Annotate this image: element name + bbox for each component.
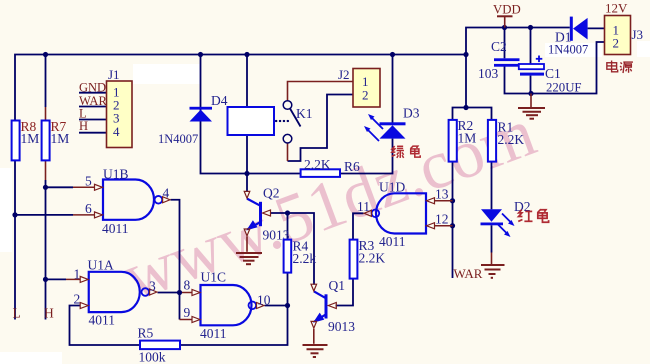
svg-text:D3: D3	[403, 106, 420, 121]
capacitor C1	[519, 56, 582, 95]
relay coil K1 box	[228, 107, 275, 135]
svg-text:9013: 9013	[328, 319, 355, 334]
wire R6 to D3	[340, 139, 393, 174]
connector J3	[605, 1, 644, 55]
svg-text:U1A: U1A	[88, 258, 114, 273]
pin 1	[46, 267, 89, 283]
pin 5	[46, 174, 103, 191]
svg-text:4011: 4011	[89, 313, 116, 328]
pin 9	[184, 305, 201, 323]
LED D3 green	[364, 106, 420, 142]
svg-text:9: 9	[184, 305, 191, 320]
ground below Q2	[236, 237, 262, 265]
svg-text:Q1: Q1	[329, 278, 346, 293]
svg-text:VDD: VDD	[493, 3, 521, 17]
svg-text:C1: C1	[545, 66, 561, 81]
wire U1C pin8 stub feed	[180, 292, 192, 294]
wire H net maroon section	[45, 107, 47, 180]
svg-text:2.2K: 2.2K	[359, 251, 386, 266]
pin 6	[15, 201, 103, 218]
wire R4 bottom to feedback	[180, 273, 288, 345]
ground below D2	[481, 253, 505, 278]
svg-text:L: L	[13, 306, 21, 321]
wire H net vertical	[45, 55, 47, 108]
wire K1 lower stem (maroon)	[287, 143, 289, 161]
svg-text:J2: J2	[338, 67, 350, 82]
wire C2 stem	[504, 28, 506, 59]
resistor R3	[350, 238, 386, 279]
wire D1 to J3 pin1	[588, 27, 605, 29]
resistor R6	[301, 157, 360, 177]
svg-text:J1: J1	[108, 67, 120, 82]
Q1 collector pin arrow	[311, 284, 317, 291]
svg-text:1M: 1M	[21, 131, 40, 146]
pin 13	[427, 187, 453, 204]
pin 4 output	[163, 186, 171, 203]
wire C1 bottom	[530, 76, 532, 94]
ground below Q1	[303, 329, 328, 357]
svg-text:D4: D4	[211, 93, 228, 108]
wire R2 R1 top feed	[453, 108, 492, 121]
svg-text:2: 2	[362, 88, 369, 103]
svg-text:1M: 1M	[51, 131, 70, 146]
wire U1A output	[158, 292, 180, 294]
wire J1 pin4 H	[79, 132, 107, 134]
connector J2	[338, 67, 380, 107]
resistor R8	[12, 119, 40, 160]
diode D4	[158, 93, 228, 146]
svg-text:C2: C2	[491, 39, 507, 54]
svg-text:12: 12	[435, 212, 449, 227]
wire VDD top rail	[15, 55, 466, 320]
svg-text:4: 4	[113, 124, 120, 139]
svg-text:220UF: 220UF	[546, 81, 582, 95]
svg-text:2.2K: 2.2K	[304, 157, 331, 172]
wire relay coil top	[246, 55, 248, 108]
svg-text:5: 5	[85, 174, 92, 189]
Q2 emitter pin arrow	[244, 229, 250, 236]
svg-text:U1B: U1B	[103, 167, 129, 182]
switch K1	[276, 101, 301, 143]
svg-text:2: 2	[613, 36, 620, 51]
ground below C1	[518, 94, 545, 119]
svg-text:1N4007: 1N4007	[548, 43, 588, 57]
wire J1 pin1 GND	[79, 92, 107, 94]
wire R4 top stub	[287, 213, 289, 240]
resistor R7	[42, 119, 70, 160]
wire D2 cathode down	[491, 225, 493, 252]
op-amp U1B nand gate	[103, 180, 162, 220]
svg-text:1N4007: 1N4007	[158, 132, 198, 146]
svg-text:10: 10	[257, 293, 271, 308]
wire R3 bottom to Q1 base	[336, 279, 354, 306]
wire J1 pin2 WAR	[79, 106, 107, 108]
wire U1B output to U1C inputs	[171, 200, 180, 320]
wire VDD corner to D1	[466, 28, 570, 55]
connector J1	[107, 67, 133, 148]
pin 10 output	[257, 293, 271, 309]
svg-text:8: 8	[184, 278, 191, 293]
wire J2 pin1 to K1 top (maroon)	[288, 82, 354, 101]
power label chinese for J3	[607, 61, 618, 72]
resistor R1	[488, 120, 524, 162]
Q1 emitter pin arrow	[311, 321, 317, 328]
Q2 collector pin arrow	[244, 191, 250, 198]
op-amp U1D nand gate mirrored	[372, 193, 426, 233]
wire J2 pin2 to K1 bottom	[288, 95, 354, 162]
op-amp U1A nand gate	[89, 272, 149, 312]
value label green chinese for D3	[392, 146, 404, 158]
wire U1D output to R3	[353, 213, 364, 239]
pin 3 output	[149, 279, 157, 296]
resistor R2	[449, 118, 477, 162]
resistor R5	[138, 326, 181, 364]
wire R2 bottom to WAR	[452, 162, 454, 278]
wire C2 bottom to gnd row	[505, 42, 605, 94]
svg-text:4011: 4011	[200, 326, 227, 341]
svg-text:4011: 4011	[102, 221, 129, 236]
svg-text:13: 13	[435, 187, 449, 202]
svg-text:H: H	[79, 119, 88, 133]
resistor R4	[284, 239, 317, 273]
svg-text:3: 3	[149, 279, 156, 294]
diode D1	[548, 17, 588, 57]
svg-text:U1C: U1C	[201, 270, 227, 285]
LED D2 red	[481, 199, 531, 237]
Q2 base pin arrow	[263, 210, 271, 216]
wire VDD to R divider	[465, 55, 467, 108]
wire D4 branch	[201, 55, 301, 174]
transistor Q1	[313, 291, 326, 323]
power VDD symbol	[497, 16, 513, 27]
svg-text:4: 4	[163, 186, 170, 201]
svg-text:100k: 100k	[139, 350, 166, 364]
svg-text:2: 2	[74, 292, 81, 307]
svg-text:U1D: U1D	[379, 180, 405, 195]
op-amp U1C nand gate	[201, 285, 257, 325]
pin 11 output	[357, 199, 371, 216]
wire R1 bottom to D2	[491, 162, 493, 210]
svg-text:WAR: WAR	[454, 266, 483, 281]
svg-text:2.2k: 2.2k	[293, 251, 317, 266]
svg-text:R6: R6	[344, 159, 360, 174]
svg-text:4011: 4011	[379, 234, 406, 249]
transistor Q2	[246, 199, 260, 231]
wire U1C output to R4 node	[265, 305, 288, 307]
svg-text:103: 103	[478, 66, 499, 81]
svg-text:Q2: Q2	[263, 186, 280, 201]
svg-text:2.2K: 2.2K	[498, 132, 525, 147]
wire J1 pin3 L	[79, 119, 107, 121]
pin 12	[427, 212, 453, 229]
pin 2	[74, 292, 89, 309]
svg-text:GND: GND	[79, 81, 106, 95]
wire relay coil bottom to Q2 collector	[246, 135, 248, 192]
value label red chinese for D2	[518, 210, 532, 222]
svg-text:J3: J3	[632, 27, 644, 42]
svg-text:1: 1	[74, 267, 81, 282]
Q1 base pin arrow	[328, 303, 336, 309]
wire R5 left to U1A pin2	[70, 306, 141, 346]
svg-text:H: H	[44, 306, 54, 321]
svg-text:1M: 1M	[458, 131, 477, 146]
svg-text:K1: K1	[296, 106, 313, 121]
wire C1 stem	[530, 28, 532, 65]
svg-text:6: 6	[85, 201, 92, 216]
svg-text:12V: 12V	[605, 1, 628, 16]
svg-text:11: 11	[357, 199, 370, 214]
wire D3 top to VDD rail	[392, 55, 394, 123]
capacitor C2	[478, 39, 520, 81]
svg-text:R5: R5	[138, 326, 154, 341]
pin 8	[184, 278, 201, 296]
wire Q2 base net	[271, 213, 315, 285]
